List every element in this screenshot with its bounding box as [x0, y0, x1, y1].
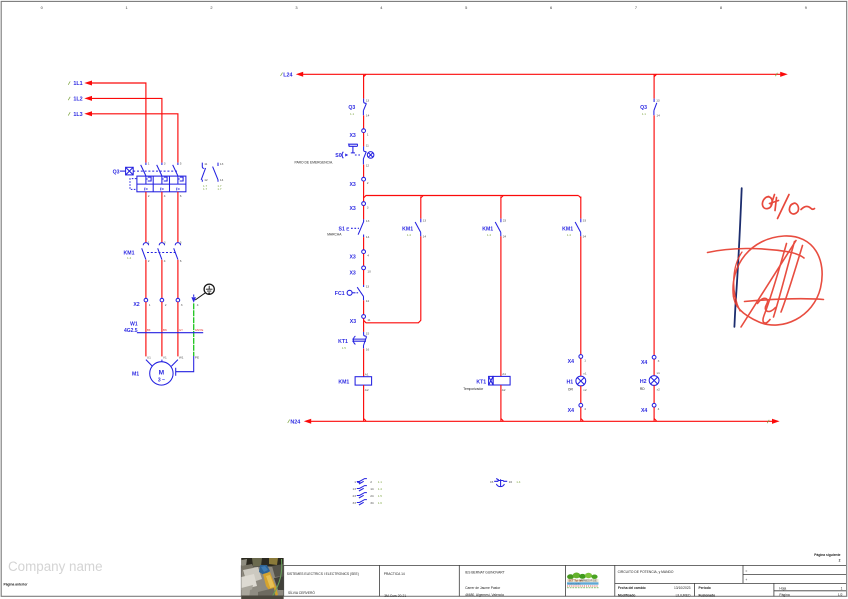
svg-text:8: 8 [720, 5, 722, 10]
wire branch to KM1-23 [500, 197, 502, 219]
svg-text:3: 3 [295, 5, 297, 10]
breaker Q3 (motor protection, 3-pole) [113, 162, 186, 198]
wire KM1 to X2:3 [177, 260, 179, 299]
svg-text:PRMES-R DE: PRMES-R DE [581, 579, 598, 583]
pen stroke navy [734, 188, 741, 327]
svg-text:13: 13 [353, 487, 357, 491]
svg-text:X4: X4 [568, 408, 574, 414]
svg-text:X4: X4 [641, 408, 647, 414]
wire X3:4 to X3:10 [363, 254, 365, 266]
svg-text:SISTEMES ELECTRICS I ELECTRONI: SISTEMES ELECTRICS I ELECTRONICS (SEE) [287, 572, 359, 576]
terminal X4:4 [641, 403, 660, 414]
wire + latch branch return [363, 319, 365, 332]
svg-text:X3: X3 [349, 254, 355, 260]
svg-text:X3: X3 [349, 206, 355, 212]
wire + branch to pilot rungs [363, 181, 365, 201]
breaker aux Q3 contact (control) [348, 98, 369, 117]
svg-text:X4: X4 [568, 359, 574, 365]
cross-reference table KT1 [490, 479, 521, 487]
wire KT1 contact to KM1 coil [363, 349, 365, 377]
terminal X3:11 [350, 315, 371, 326]
svg-text:PARO DE EMERGENCIA.: PARO DE EMERGENCIA. [295, 160, 334, 164]
svg-text:1L1: 1L1 [73, 81, 82, 87]
terminal X3:2 [349, 177, 368, 188]
svg-text:=: = [745, 569, 747, 573]
svg-text:KT1: KT1 [476, 379, 486, 385]
svg-text:1: 1 [584, 358, 586, 362]
svg-text:1: 1 [148, 162, 150, 166]
svg-text:GN/YE: GN/YE [195, 328, 204, 332]
svg-text:KM1: KM1 [338, 379, 349, 385]
wire Q3 aux to X4:3 [653, 115, 655, 355]
svg-text:I>: I> [176, 187, 180, 192]
svg-text:1: 1 [367, 132, 369, 136]
svg-text:15: 15 [490, 480, 494, 484]
thermal overload box [137, 176, 186, 192]
svg-text:x2: x2 [583, 388, 587, 392]
coil KT1 (timer) [463, 372, 510, 392]
svg-text:A2: A2 [365, 388, 369, 392]
wire L24 to Q3 aux [653, 74, 655, 98]
svg-text:Hoja: Hoja [779, 586, 786, 590]
svg-text:1.4: 1.4 [378, 487, 383, 491]
aux contact Q3 NO (13-14) [213, 162, 224, 191]
wire KM1-34 to X4:1 [580, 236, 582, 354]
node 1L3 label [68, 111, 92, 118]
svg-text:14: 14 [423, 234, 427, 238]
svg-text:U1: U1 [147, 356, 151, 360]
pole 2 [157, 163, 162, 176]
svg-text:1L2: 1L2 [73, 97, 82, 103]
svg-text:14: 14 [366, 299, 370, 303]
svg-text:I>: I> [144, 187, 148, 192]
svg-text:6: 6 [550, 5, 552, 10]
wire L24 rail [303, 73, 781, 75]
node 1L1 label [68, 81, 92, 88]
svg-text:1.4: 1.4 [516, 480, 521, 484]
svg-text:13: 13 [423, 218, 427, 222]
wire PE green [193, 303, 195, 356]
svg-text:1: 1 [354, 480, 356, 484]
svg-text:14: 14 [656, 113, 660, 117]
svg-text:M1: M1 [132, 371, 139, 377]
svg-text:GY: GY [179, 328, 183, 332]
svg-text:2: 2 [839, 559, 841, 563]
svg-text:14: 14 [366, 235, 370, 239]
terminal X2:4 (PE) [191, 297, 196, 303]
svg-text:16: 16 [366, 348, 370, 352]
svg-text:OR: OR [568, 387, 574, 391]
svg-text:13: 13 [366, 98, 370, 102]
cable W1 4G2.5 [124, 322, 203, 334]
svg-text:14: 14 [366, 113, 370, 117]
svg-text:W1: W1 [130, 322, 138, 328]
svg-text:1.5: 1.5 [378, 494, 383, 498]
cross-reference table KM1 [353, 479, 383, 505]
svg-text:13: 13 [656, 98, 660, 102]
svg-text:RD: RD [640, 387, 645, 391]
wire X3:3 to S1 [363, 206, 365, 220]
terminal X3:4 [349, 250, 369, 260]
svg-text:4: 4 [197, 303, 199, 307]
svg-text:Modificado: Modificado [618, 594, 635, 598]
svg-text:1.4: 1.4 [567, 233, 572, 237]
svg-text:7: 7 [635, 5, 637, 10]
pushbutton S1 MARCHA [327, 219, 369, 239]
svg-text:11: 11 [366, 144, 369, 148]
svg-text:E: E [346, 226, 349, 231]
svg-text:BN: BN [163, 328, 167, 332]
svg-text:2: 2 [210, 5, 212, 10]
svg-text:x1: x1 [583, 372, 587, 376]
svg-text:Q3: Q3 [640, 105, 647, 111]
svg-text:S1: S1 [339, 226, 345, 232]
svg-text:S0: S0 [335, 153, 341, 159]
svg-text:KM1: KM1 [562, 226, 573, 232]
wire X2:3 to motor [177, 302, 179, 357]
svg-text:X3: X3 [349, 182, 355, 188]
wire Q3 to KM1 pole1 [145, 192, 147, 243]
svg-text:3: 3 [164, 162, 166, 166]
svg-text:x1: x1 [657, 371, 661, 375]
wire S0 to X3:2 [363, 165, 365, 178]
svg-text:x2: x2 [657, 387, 661, 391]
wire X2:1 to motor [145, 302, 147, 357]
svg-text:A1: A1 [365, 373, 369, 377]
svg-text:46680, Algemesí, Valencia: 46680, Algemesí, Valencia [465, 593, 504, 597]
wire X3:10 to FC1 [363, 270, 365, 285]
svg-text:2: 2 [367, 181, 369, 185]
svg-text:1L3: 1L3 [73, 112, 82, 118]
svg-text:3 ~: 3 ~ [158, 378, 165, 384]
svg-text:Company name: Company name [8, 559, 103, 574]
junction L24/H2 rung [654, 74, 656, 76]
svg-text:33: 33 [583, 218, 587, 222]
svg-text:3M-Curs 20-21: 3M-Curs 20-21 [384, 594, 406, 598]
node L24 label [281, 72, 304, 79]
wire L1 [92, 83, 146, 163]
svg-text:Temporizador: Temporizador [463, 387, 484, 391]
svg-text:10: 10 [367, 270, 371, 274]
red signature scribble [708, 236, 824, 327]
wire S1 to X3:4 [363, 237, 365, 250]
pole 3 [173, 163, 178, 176]
node 1L2 label [68, 96, 92, 103]
limit switch FC1 [335, 284, 370, 303]
wire Q3 to KM1 pole2 [161, 192, 163, 243]
svg-text:Q3: Q3 [113, 169, 120, 175]
svg-text:FC1: FC1 [335, 291, 345, 297]
svg-text:24: 24 [370, 494, 374, 498]
lamp H2 [640, 371, 660, 391]
svg-text:34: 34 [583, 234, 587, 238]
emergency stop S0 [295, 144, 374, 168]
wire branch to KM1-33 [580, 197, 582, 219]
svg-text:KM1: KM1 [482, 226, 493, 232]
wire L24 to Q3 contact [363, 75, 365, 99]
ground symbol (protective earth) [195, 284, 214, 300]
svg-text:KT1: KT1 [338, 339, 348, 345]
pole 1 [141, 163, 146, 176]
svg-text:3: 3 [658, 359, 660, 363]
svg-text:16: 16 [509, 480, 513, 484]
svg-text:IES BERNAT GUINOVART: IES BERNAT GUINOVART [465, 571, 505, 575]
wire X2:2 to motor [161, 302, 163, 357]
svg-text:W1: W1 [179, 356, 184, 360]
svg-text:2: 2 [370, 480, 372, 484]
wire H1 to X4 [580, 386, 582, 403]
svg-text:4: 4 [367, 253, 369, 257]
svg-text:Periodo: Periodo [699, 586, 711, 590]
svg-text:1.1: 1.1 [378, 480, 383, 484]
junction L24/main rung [364, 74, 366, 76]
terminal X3:3 [349, 202, 368, 212]
title block photo logo [241, 558, 283, 599]
svg-text:X4: X4 [641, 360, 647, 366]
wire X4:4 to N24 [653, 407, 655, 421]
svg-text:1: 1 [148, 240, 150, 244]
svg-text:L24: L24 [283, 72, 292, 78]
svg-text:1.6: 1.6 [378, 501, 383, 505]
motor M1 [132, 356, 199, 386]
column ruler numbers [41, 5, 807, 10]
svg-text:2: 2 [148, 259, 150, 263]
svg-text:3: 3 [181, 303, 183, 307]
svg-text:9: 9 [805, 5, 807, 10]
svg-text:A1: A1 [502, 372, 506, 376]
svg-text:24: 24 [503, 234, 507, 238]
terminal X3:10 [349, 266, 371, 277]
svg-text:6: 6 [180, 194, 182, 198]
svg-text:1.4: 1.4 [127, 256, 132, 260]
svg-text:M: M [159, 369, 165, 376]
svg-text:Carrer de Jaume Pastor: Carrer de Jaume Pastor [465, 586, 501, 590]
wire KM1 to X2:1 [145, 260, 147, 299]
wire L3 [92, 114, 178, 163]
svg-text:1.1: 1.1 [642, 112, 647, 116]
svg-text:5: 5 [465, 5, 467, 10]
svg-text:14: 14 [370, 487, 374, 491]
svg-text:3: 3 [367, 205, 369, 209]
svg-text:12: 12 [366, 164, 370, 168]
svg-text:Camra-Qelsa: Camra-Qelsa [569, 583, 582, 585]
terminal X3:1 [349, 129, 368, 139]
svg-text:Fusionado: Fusionado [699, 594, 716, 598]
terminal X4:3 [641, 355, 660, 366]
wire L2 [92, 98, 162, 162]
svg-text:4G2.5: 4G2.5 [124, 328, 138, 334]
svg-text:13: 13 [220, 162, 224, 166]
svg-text:1.7: 1.7 [203, 187, 208, 191]
wire branch to latch contact [420, 197, 422, 219]
svg-text:1/2: 1/2 [838, 593, 843, 597]
coil KM1 [338, 373, 371, 392]
svg-text:V1: V1 [163, 356, 167, 360]
svg-text:13: 13 [366, 219, 370, 223]
node N24 label [288, 419, 312, 426]
breaker aux Q3 contact (H2) [640, 98, 660, 117]
svg-text:1: 1 [841, 586, 843, 590]
svg-text:11: 11 [204, 162, 207, 166]
wire X4:3 to H2 [653, 359, 655, 375]
svg-text:KM1: KM1 [402, 226, 413, 232]
svg-text:X3: X3 [349, 133, 355, 139]
svg-text:1: 1 [126, 5, 128, 10]
svg-text:4: 4 [164, 259, 166, 263]
wire FC1 to X3:11 [363, 300, 365, 314]
wire KM1 to X2:2 [161, 260, 163, 299]
svg-text:+: + [745, 578, 747, 582]
svg-text:Fecha del cambio: Fecha del cambio [618, 586, 646, 590]
svg-text:1.4: 1.4 [407, 233, 412, 237]
svg-text:23: 23 [503, 218, 507, 222]
svg-text:A2: A2 [502, 388, 506, 392]
wire H2 to X4:4 [653, 385, 655, 403]
svg-text:11: 11 [367, 318, 370, 322]
svg-text:4: 4 [658, 407, 660, 411]
svg-text:H1: H1 [567, 379, 574, 385]
svg-text:2: 2 [148, 194, 150, 198]
svg-text:14: 14 [220, 178, 224, 182]
svg-text:PE: PE [195, 356, 199, 360]
svg-text:X2: X2 [133, 302, 139, 308]
svg-text:4: 4 [164, 194, 166, 198]
contactor KM1 main contacts [124, 240, 182, 263]
timer contact KT1 [338, 332, 369, 352]
svg-text:1.1: 1.1 [350, 112, 355, 116]
svg-text:34: 34 [370, 501, 374, 505]
svg-text:N24: N24 [290, 419, 300, 425]
svg-text:13: 13 [366, 284, 370, 288]
svg-text:2: 2 [165, 303, 167, 307]
svg-text:1.7: 1.7 [217, 187, 222, 191]
svg-text:H2: H2 [640, 379, 647, 385]
svg-text:LILIURED: LILIURED [676, 594, 691, 598]
wire latch rung down [420, 236, 422, 320]
terminal strip X2 [133, 295, 198, 309]
wire Q3 to X3:1 [363, 115, 365, 128]
svg-text:23: 23 [353, 494, 357, 498]
svg-text:CIRCUITO DE POTENCIA, y MANDO: CIRCUITO DE POTENCIA, y MANDO [618, 570, 674, 574]
svg-text:Página: Página [779, 593, 789, 597]
svg-text:1.4: 1.4 [487, 233, 492, 237]
svg-text:I>: I> [160, 187, 164, 192]
svg-text:4: 4 [584, 407, 586, 411]
svg-text:5: 5 [180, 240, 182, 244]
svg-text:13/10/2023: 13/10/2023 [674, 586, 691, 590]
svg-text:SÍLVIA CERVERÓ: SÍLVIA CERVERÓ [288, 590, 315, 595]
svg-text:Página siguiente: Página siguiente [814, 553, 840, 557]
wire Q3 to KM1 pole3 [177, 192, 179, 243]
red handwriting 04/0c [762, 195, 814, 219]
wire X3:1 to S0 [363, 133, 365, 147]
wire KM1-24 to KT1 coil [500, 236, 502, 376]
svg-text:X3: X3 [349, 271, 355, 277]
wire N24 rail [311, 420, 772, 422]
svg-text:15: 15 [366, 332, 370, 336]
lamp H1 [567, 372, 587, 392]
svg-text:1.5: 1.5 [342, 346, 347, 350]
wire X4 to N24 [580, 407, 582, 421]
svg-text:MARCHA: MARCHA [327, 233, 342, 237]
svg-text:PRACTICA 14: PRACTICA 14 [384, 572, 405, 576]
terminal X4:2 [568, 403, 587, 414]
svg-text:X3: X3 [350, 319, 356, 325]
svg-text:BK: BK [147, 328, 151, 332]
wire KM1 coil to N24 [363, 385, 365, 421]
svg-text:Página anterior: Página anterior [4, 582, 29, 586]
terminal X4:1 [568, 355, 587, 366]
PE into motor [176, 356, 194, 376]
svg-text:3: 3 [164, 240, 166, 244]
QElectroTech logo [567, 573, 599, 588]
svg-text:1: 1 [149, 303, 151, 307]
svg-text:5: 5 [180, 162, 182, 166]
wire X4:1 to H1 [580, 359, 582, 376]
wire KT1 coil to N24 [500, 385, 502, 421]
svg-text:12: 12 [204, 178, 208, 182]
svg-text:6: 6 [180, 259, 182, 263]
svg-text:Q3: Q3 [348, 105, 355, 111]
aux contact Q3 NC (11-12) [201, 162, 208, 191]
svg-text:33: 33 [353, 501, 357, 505]
